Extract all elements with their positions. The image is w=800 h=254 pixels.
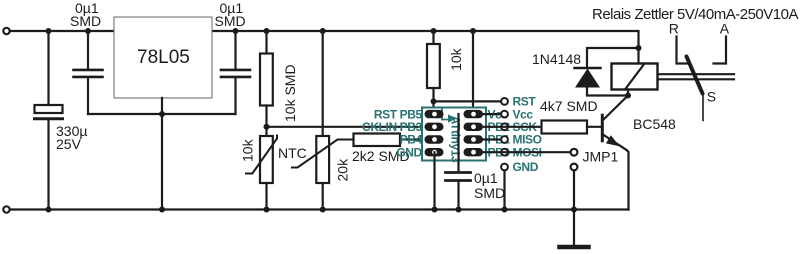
svg-text:SMD: SMD [70, 13, 101, 29]
wire 4k7 to base [587, 126, 601, 128]
capacitor C4 0u1 SMD (decoupling) [446, 114, 506, 210]
trimmer P1 20k [292, 31, 355, 210]
svg-text:25V: 25V [56, 136, 82, 152]
svg-text:10k SMD: 10k SMD [282, 64, 298, 122]
wire RST row [434, 100, 501, 102]
svg-text:1N4148: 1N4148 [532, 51, 581, 67]
wire GND circle to bottom rail [503, 170, 505, 209]
svg-text:78L05: 78L05 [137, 47, 190, 68]
contact R [669, 20, 688, 63]
switch blade S [687, 57, 717, 121]
node RST junction [431, 98, 437, 104]
resistor R5 4k7 SMD [540, 98, 598, 134]
node collector junction [625, 93, 631, 99]
terminal top-left [3, 28, 9, 34]
capacitor C1 330u 25V electrolytic [35, 31, 88, 210]
wire MOSI row to JMP1 [478, 151, 570, 153]
label right pin names [488, 107, 511, 159]
relay actuator double lines [658, 74, 735, 79]
resistor R2 10k SMD (vertical) [260, 31, 298, 136]
svg-text:SMD: SMD [474, 185, 505, 201]
wire top rail [11, 30, 115, 32]
terminal bottom-left [3, 206, 9, 212]
svg-text:Relais Zettler 5V/40mA-250V10A: Relais Zettler 5V/40mA-250V10A [592, 6, 798, 23]
regulator IC1 78L05 [114, 17, 212, 210]
wire SCK row to 4k7 [478, 126, 542, 128]
svg-text:GND: GND [396, 145, 422, 159]
wire Vcc pad to circle [478, 113, 500, 115]
svg-text:0µ1: 0µ1 [474, 170, 498, 186]
wire CKLIN row [267, 126, 435, 128]
transistor Q1 BC548 [602, 96, 676, 210]
wire 2k2 to PB4 pin [400, 138, 435, 140]
relay RE1 coil [612, 48, 658, 96]
svg-text:A: A [720, 20, 730, 36]
svg-text:10k: 10k [240, 138, 256, 162]
thermistor R1 NTC 10k [240, 136, 307, 210]
label left pin names [362, 107, 422, 159]
IC pad holes [432, 112, 476, 155]
IC pads right (pins 5-8) [464, 110, 484, 156]
node junction R2/NTC/CKLIN [264, 124, 270, 130]
svg-text:NTC: NTC [278, 145, 307, 161]
wire regulator ground mid-line [88, 113, 236, 115]
resistor R3 2k2 SMD [352, 134, 410, 165]
diode D1 1N4148 [532, 48, 639, 96]
resistor R4 10k (above IC) [427, 31, 464, 114]
label ISP pin names [513, 95, 542, 175]
node relay top junction [636, 45, 642, 51]
wire GND pin to bottom rail [433, 152, 435, 209]
svg-text:4k7 SMD: 4k7 SMD [540, 98, 598, 114]
svg-text:SMD: SMD [215, 13, 246, 29]
node regulator ground junction [159, 111, 165, 117]
IC pads left (pins 1-4) [425, 110, 444, 156]
capacitor C3 0u1 SMD (right of 78L05) [215, 0, 251, 114]
svg-text:JMP1: JMP1 [583, 149, 619, 165]
svg-text:20k: 20k [335, 158, 351, 182]
node top rail junctions [46, 28, 477, 34]
wire MISO pad to circle [478, 138, 500, 140]
wire bottom rail [11, 208, 629, 210]
svg-text:ATtiny13: ATtiny13 [449, 116, 463, 163]
ground [560, 210, 589, 248]
jumper JMP1 [571, 149, 619, 210]
contact A [714, 20, 730, 63]
IC ATtiny13 package [422, 108, 486, 164]
svg-text:GND: GND [513, 160, 539, 174]
svg-text:R: R [669, 20, 679, 36]
connector ISP circles [501, 98, 508, 170]
wire Vcc drop to IC pin [472, 31, 474, 114]
svg-text:10k: 10k [448, 47, 464, 71]
svg-text:BC548: BC548 [633, 116, 676, 132]
capacitor C2 0u1 SMD (left of 78L05) [70, 0, 103, 114]
node bottom rail junctions [46, 207, 578, 213]
svg-text:S: S [707, 88, 716, 104]
